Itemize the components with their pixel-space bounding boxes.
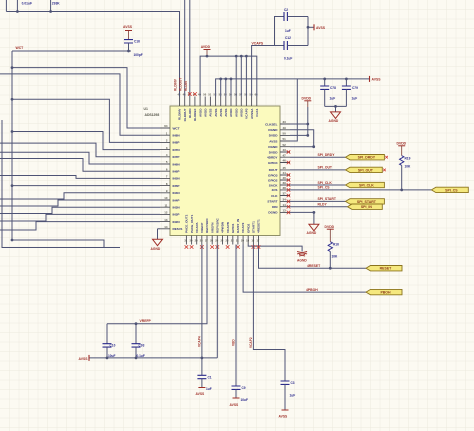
- R19 value 10K: [405, 165, 412, 169]
- wire input channel 12: [0, 214, 160, 221]
- svg-text:1uF: 1uF: [352, 97, 358, 101]
- svg-text:C16: C16: [134, 40, 140, 44]
- svg-text:4PBOH: 4PBOH: [306, 288, 318, 292]
- svg-text:PACE_OUT2: PACE_OUT2: [185, 214, 189, 233]
- capacitor C78: [320, 79, 329, 107]
- svg-text:C78: C78: [330, 86, 336, 90]
- node C93 tap junction: [135, 322, 138, 325]
- resistor value 293K: [52, 1, 61, 5]
- wire VREFP: [107, 245, 207, 324]
- junctions on V2: [11, 66, 14, 241]
- svg-text:52: 52: [283, 143, 287, 147]
- svg-text:WCT: WCT: [16, 46, 25, 50]
- C1 designator: [208, 376, 212, 380]
- wire input channel 10: [0, 200, 160, 206]
- port SPI_CS: [431, 187, 468, 192]
- svg-text:PBOH: PBOH: [380, 291, 391, 295]
- node SPI_CS pullup junction: [400, 189, 403, 192]
- R16 value 10K: [332, 255, 339, 259]
- wire input channel 1: [0, 74, 160, 135]
- svg-text:REFVSRC: REFVSRC: [205, 217, 209, 233]
- wire SPI_CS: [290, 189, 431, 191]
- wire to signal ground: [248, 245, 302, 252]
- svg-text:DVDD: DVDD: [302, 97, 312, 101]
- svg-text:21: 21: [236, 239, 239, 243]
- svg-text:START1: START1: [252, 221, 256, 233]
- svg-text:SPI_CS: SPI_CS: [318, 186, 331, 190]
- svg-text:29: 29: [195, 239, 198, 243]
- port RESET: [366, 266, 402, 271]
- svg-text:IN7N: IN7N: [173, 148, 181, 152]
- svg-text:VCAPA: VCAPA: [195, 222, 199, 233]
- C12 designator: [285, 36, 291, 40]
- svg-text:10uF: 10uF: [108, 354, 115, 358]
- net label VCAP4: [197, 336, 201, 347]
- net label RLDINV: [174, 78, 178, 91]
- svg-text:10: 10: [164, 196, 168, 200]
- svg-text:CLKSEL: CLKSEL: [265, 122, 277, 126]
- svg-text:46: 46: [283, 159, 287, 163]
- net label VREFP: [140, 319, 152, 323]
- wire SPI_IN: [290, 206, 348, 208]
- svg-text:RLDOUT: RLDOUT: [179, 78, 183, 91]
- power AVSS at caps: [308, 24, 326, 30]
- wire RESV1 to ground: [158, 229, 161, 239]
- svg-text:23: 23: [226, 239, 229, 243]
- svg-text:SPI_START: SPI_START: [318, 197, 337, 201]
- port SPI_IN: [348, 204, 383, 209]
- svg-text:VCAP2: VCAP2: [249, 337, 253, 348]
- power DVDD top right: [302, 97, 312, 136]
- wire SPI_DRDY: [290, 156, 346, 158]
- svg-text:33: 33: [283, 120, 287, 124]
- net label SPI_CS: [318, 186, 331, 190]
- svg-text:44: 44: [283, 171, 287, 175]
- svg-text:IN2N: IN2N: [173, 220, 181, 224]
- port SPI_START: [346, 199, 385, 204]
- svg-text:DAISY_IN: DAISY_IN: [236, 218, 240, 233]
- svg-text:38: 38: [283, 186, 287, 190]
- R19 designator: [405, 157, 411, 161]
- C78 designator and value: [330, 86, 337, 101]
- C12 value 0.1uF: [284, 57, 292, 61]
- wire AVSS pin to rail: [290, 79, 297, 141]
- no-ERC marks on RLD pins: [188, 92, 197, 96]
- power AVDD: [201, 45, 211, 56]
- op-amp U1 ADS1298 body: [170, 106, 280, 236]
- wire V2 bottom run: [12, 240, 104, 248]
- wire top-left RC net to pin RLDINV: [6, 0, 179, 97]
- C9 value 10uF: [241, 398, 248, 402]
- U1 right pin names: [265, 122, 278, 214]
- svg-text:64: 64: [164, 124, 168, 128]
- power AVSS rail left end: [79, 355, 89, 361]
- node WCT-C16 junction: [127, 50, 130, 53]
- ground AGND right: [307, 224, 319, 235]
- svg-text:C93: C93: [139, 344, 145, 348]
- wire input channel 9: [0, 193, 160, 199]
- svg-text:SPI_IN: SPI_IN: [361, 205, 373, 209]
- svg-text:DVDD: DVDD: [269, 150, 279, 154]
- svg-text:VCAP4: VCAP4: [197, 336, 201, 347]
- svg-text:14: 14: [283, 203, 287, 207]
- net label VBD: [232, 339, 236, 346]
- wire CLKSEL pin to DVDD: [290, 123, 308, 125]
- net label 4PBOH: [306, 288, 318, 292]
- svg-text:AVSS: AVSS: [209, 109, 213, 117]
- svg-text:RLDINV: RLDINV: [174, 78, 178, 91]
- svg-text:50: 50: [283, 132, 287, 136]
- svg-text:START: START: [267, 200, 277, 204]
- svg-text:CLK: CLK: [271, 194, 278, 198]
- net label VCAPS: [252, 41, 264, 45]
- wire WCT: [12, 50, 131, 52]
- svg-text:AVSS: AVSS: [123, 25, 133, 29]
- capacitor C3: [281, 381, 290, 410]
- svg-text:REFVSRC: REFVSRC: [216, 217, 220, 233]
- power DVDD pullup R16: [325, 225, 335, 242]
- svg-text:AVSS: AVSS: [230, 403, 240, 407]
- resistor R16: [328, 242, 332, 269]
- power AVSS under C1: [196, 388, 206, 397]
- wire DVDD pin row: [290, 134, 308, 136]
- capacitor C16: [124, 40, 133, 51]
- svg-text:DVDD: DVDD: [397, 141, 407, 145]
- svg-text:AVDD: AVDD: [240, 108, 244, 117]
- C79 designator and value: [352, 86, 359, 101]
- wire VCAPS: [252, 46, 275, 97]
- ground AGND star: [297, 252, 307, 263]
- no-ERC marks right pins: [287, 150, 291, 214]
- C93 designator: [139, 344, 145, 348]
- svg-text:43: 43: [283, 148, 287, 152]
- wire bus V1 left edge: [2, 120, 120, 248]
- C16 value 100pF: [134, 53, 143, 57]
- U1 top pin names: [178, 108, 259, 122]
- svg-text:VCAPS: VCAPS: [252, 41, 264, 45]
- svg-text:4CS: 4CS: [271, 188, 277, 192]
- svg-text:SPI_DRDY: SPI_DRDY: [358, 156, 376, 160]
- svg-text:C9: C9: [242, 386, 246, 390]
- node caps common junction: [334, 105, 337, 108]
- svg-text:IN7P: IN7P: [173, 155, 180, 159]
- svg-text:AVSS: AVSS: [219, 109, 223, 117]
- net label RLDY: [318, 203, 328, 207]
- svg-text:17: 17: [256, 239, 259, 243]
- C3 value 1uF: [290, 394, 296, 398]
- svg-text:AGND: AGND: [151, 247, 161, 251]
- wire RLDIN: [189, 0, 191, 97]
- capacitor C79: [342, 79, 351, 107]
- svg-text:SPI_START: SPI_START: [357, 200, 377, 204]
- svg-text:1uF: 1uF: [285, 29, 291, 33]
- svg-text:SACK: SACK: [269, 183, 279, 187]
- svg-text:AVSS: AVSS: [316, 26, 326, 30]
- capacitor C9: [232, 386, 241, 398]
- wire input channel 3: [12, 132, 160, 150]
- svg-text:AVDD: AVDD: [201, 45, 211, 49]
- svg-text:PACE_OUT1: PACE_OUT1: [190, 214, 194, 233]
- svg-text:1uF: 1uF: [330, 97, 336, 101]
- svg-text:AVDD: AVDD: [203, 108, 207, 117]
- wire SPI_CLK: [290, 184, 346, 186]
- svg-text:1uF: 1uF: [206, 387, 212, 391]
- U1 right pin numbers: [283, 120, 287, 212]
- capacitor C2: [284, 12, 308, 21]
- C1 value 1uF: [206, 387, 212, 391]
- svg-text:100pF: 100pF: [134, 53, 143, 57]
- no-ERC mark at SPI_DRDY port: [385, 156, 388, 159]
- svg-text:10K: 10K: [332, 255, 339, 259]
- wire 4PBOH: [243, 245, 366, 293]
- svg-text:VREFP: VREFP: [200, 223, 204, 233]
- svg-text:22: 22: [231, 239, 234, 243]
- svg-text:AVDD: AVDD: [198, 108, 202, 117]
- svg-text:45: 45: [283, 166, 287, 170]
- svg-text:0.1uF: 0.1uF: [284, 57, 292, 61]
- svg-text:GPID2: GPID2: [246, 223, 250, 233]
- U1 left pin names: [173, 126, 183, 231]
- C10 designator: [110, 344, 116, 348]
- svg-text:WCT: WCT: [173, 126, 180, 130]
- svg-text:0.1uF: 0.1uF: [137, 354, 145, 358]
- wire SPI_OUT: [290, 169, 346, 171]
- svg-text:VREFP: VREFP: [140, 319, 152, 323]
- wire input channel 4: [0, 143, 160, 157]
- R16 designator: [333, 243, 339, 247]
- capacitor C1: [197, 375, 206, 387]
- svg-text:GPIO3: GPIO3: [268, 173, 278, 177]
- svg-text:GPIO4: GPIO4: [268, 161, 278, 165]
- junctions AVDD rail: [206, 55, 248, 58]
- wire input channel 6: [0, 159, 160, 172]
- svg-text:C1: C1: [208, 376, 212, 380]
- svg-text:RLDIN: RLDIN: [184, 81, 188, 91]
- svg-text:13: 13: [283, 209, 287, 213]
- junctions AVSS rail: [219, 78, 347, 81]
- svg-text:DVDD: DVDD: [269, 134, 279, 138]
- svg-text:4DRDY: 4DRDY: [267, 156, 278, 160]
- svg-text:ADS1298: ADS1298: [145, 113, 160, 117]
- net label RLDIN: [184, 81, 188, 91]
- net label WCT: [16, 46, 25, 50]
- svg-text:AVSS: AVSS: [269, 139, 277, 143]
- U1 bottom pin names: [185, 214, 261, 233]
- svg-text:20: 20: [241, 239, 244, 243]
- wire input channel 13: [0, 222, 160, 230]
- svg-text:4RESET: 4RESET: [307, 264, 321, 268]
- svg-text:10uF: 10uF: [241, 398, 248, 402]
- C93 value 0.1uF: [137, 354, 145, 358]
- svg-text:30: 30: [190, 239, 193, 243]
- C9 designator: [242, 386, 246, 390]
- U1 bottom pin numbers: [184, 239, 260, 243]
- svg-text:IN5P: IN5P: [173, 184, 180, 188]
- C3 designator: [291, 381, 295, 385]
- power AVSS under C3: [279, 410, 289, 419]
- wire SPI_START: [290, 200, 346, 202]
- svg-text:DVDD: DVDD: [325, 225, 335, 229]
- svg-text:IN4P: IN4P: [173, 198, 180, 202]
- capacitor C93: [132, 324, 141, 358]
- port SPI_CLK: [346, 182, 385, 187]
- svg-text:SPI_OUT: SPI_OUT: [318, 166, 333, 170]
- svg-text:47: 47: [283, 153, 287, 157]
- wire input channel 11: [0, 207, 160, 213]
- svg-text:37: 37: [283, 192, 287, 196]
- svg-text:RLDREF: RLDREF: [193, 108, 197, 121]
- svg-text:SPI_CLK: SPI_CLK: [359, 184, 374, 188]
- svg-text:RLDINV: RLDINV: [178, 108, 182, 120]
- node RESET pullup junction: [329, 267, 332, 270]
- net label SPI_CLK: [318, 181, 333, 185]
- svg-text:19: 19: [246, 239, 249, 243]
- svg-text:10K: 10K: [405, 165, 412, 169]
- capacitor C10: [103, 324, 112, 358]
- svg-text:34: 34: [283, 198, 287, 202]
- wire C2 C12 right leg: [307, 17, 309, 46]
- svg-text:IN3P: IN3P: [173, 213, 180, 217]
- svg-text:IN8P: IN8P: [173, 141, 180, 145]
- svg-text:IN3N: IN3N: [173, 206, 181, 210]
- wire 4RESET: [259, 245, 367, 269]
- net label RLDOUT: [179, 78, 183, 91]
- svg-text:R16: R16: [333, 243, 339, 247]
- svg-text:40: 40: [283, 176, 287, 180]
- capacitor C12: [284, 41, 308, 50]
- svg-text:AVSS: AVSS: [372, 77, 382, 81]
- svg-text:RLDIN: RLDIN: [188, 108, 192, 118]
- svg-text:VCAP3: VCAP3: [245, 108, 249, 119]
- svg-text:49: 49: [283, 126, 287, 130]
- wire caps common: [325, 106, 347, 112]
- net label SPI_START: [318, 197, 337, 201]
- svg-text:C3: C3: [291, 381, 295, 385]
- node right leg junction: [307, 26, 310, 29]
- svg-text:1uF: 1uF: [290, 394, 296, 398]
- svg-text:AGND: AGND: [329, 119, 339, 123]
- svg-text:11: 11: [164, 203, 167, 207]
- power AVSS top-left: [123, 25, 133, 40]
- wire input channel 7: [0, 176, 160, 179]
- wire VCAP2: [253, 245, 285, 382]
- U1 left pin numbers: [164, 124, 168, 229]
- svg-text:293K: 293K: [52, 1, 61, 5]
- no-ERC marks bottom pins: [185, 245, 261, 249]
- wire input channel 8: [12, 185, 160, 187]
- svg-text:VBD: VBD: [232, 339, 236, 346]
- resistor R19: [400, 156, 404, 190]
- svg-text:IN8N: IN8N: [173, 134, 181, 138]
- svg-text:IN4N: IN4N: [173, 191, 181, 195]
- power AVSS right end: [370, 76, 382, 82]
- port SPI_DRDY: [346, 155, 385, 160]
- wire input channel 0: [12, 68, 160, 128]
- node junction top-left R: [49, 10, 52, 13]
- svg-text:R19: R19: [405, 157, 411, 161]
- wire DGND chain right: [290, 130, 314, 147]
- svg-text:IN6N: IN6N: [173, 162, 181, 166]
- ground AGND under C78 C79: [329, 112, 341, 123]
- svg-text:0.01uF: 0.01uF: [22, 1, 32, 5]
- wire AVSS bottom rail: [89, 245, 217, 358]
- svg-text:28: 28: [200, 239, 203, 243]
- svg-text:AVSSA: AVSSA: [250, 108, 254, 119]
- power DVDD pullup R19: [397, 141, 407, 155]
- svg-text:RESET: RESET: [380, 267, 393, 271]
- svg-text:26: 26: [210, 239, 213, 243]
- svg-text:AVSS: AVSS: [79, 357, 89, 361]
- svg-text:C12: C12: [285, 36, 291, 40]
- wire RLDOUT: [184, 0, 186, 97]
- svg-text:C2: C2: [284, 8, 288, 12]
- svg-text:U1: U1: [144, 107, 148, 111]
- svg-text:12: 12: [164, 211, 168, 215]
- ground AGND left: [151, 239, 163, 251]
- svg-text:SPI_CS: SPI_CS: [445, 188, 458, 192]
- wire C2 C12 left leg: [275, 17, 285, 46]
- svg-text:SPI_DRDY: SPI_DRDY: [318, 153, 336, 157]
- svg-text:SPI_CLK: SPI_CLK: [318, 181, 333, 185]
- port SPI_OUT: [346, 167, 383, 172]
- wire DGND to AGND: [290, 212, 314, 224]
- U1 designator: [144, 107, 160, 117]
- svg-text:13: 13: [164, 218, 168, 222]
- svg-text:VCAP2: VCAP2: [241, 222, 245, 233]
- svg-text:DGND: DGND: [268, 211, 278, 215]
- C10 value 10uF: [108, 354, 115, 358]
- svg-text:DIN: DIN: [272, 205, 278, 209]
- svg-text:4PWDN: 4PWDN: [221, 221, 225, 233]
- svg-text:AVSS: AVSS: [279, 415, 289, 419]
- svg-text:RLDY: RLDY: [318, 203, 328, 207]
- svg-text:IN6P: IN6P: [173, 170, 180, 174]
- svg-text:VREFN: VREFN: [210, 222, 214, 233]
- svg-text:DGND: DGND: [268, 128, 278, 132]
- U1 top pin numbers: [177, 93, 258, 97]
- net label SPI_OUT: [318, 166, 333, 170]
- svg-text:RLDOUT: RLDOUT: [183, 108, 187, 121]
- C16 designator: [134, 40, 140, 44]
- svg-text:AVDD: AVDD: [234, 108, 238, 117]
- svg-text:GPIO1: GPIO1: [231, 223, 235, 233]
- node DGND chain junction: [312, 145, 315, 148]
- svg-text:AVDD: AVDD: [229, 108, 233, 117]
- net label SPI_DRDY: [318, 153, 336, 157]
- C2 value 1uF: [285, 29, 291, 33]
- svg-text:25: 25: [215, 239, 218, 243]
- svg-text:AVSS: AVSS: [224, 109, 228, 117]
- svg-text:SPI_OUT: SPI_OUT: [358, 168, 374, 172]
- svg-text:18: 18: [251, 239, 254, 243]
- svg-text:AVSS: AVSS: [214, 109, 218, 117]
- svg-text:14: 14: [164, 225, 168, 229]
- svg-text:AGND: AGND: [307, 231, 317, 235]
- port PBOH: [366, 289, 402, 294]
- svg-text:C79: C79: [352, 86, 358, 90]
- node junction top-left C: [16, 10, 19, 13]
- wire bus V2 left: [11, 51, 13, 240]
- wire AVDD rail: [200, 56, 257, 96]
- wire input channel 5: [0, 152, 160, 164]
- node DGND junction: [313, 211, 316, 214]
- wire AVSS rail: [216, 79, 370, 97]
- svg-text:CLK1: CLK1: [255, 108, 259, 116]
- svg-text:27: 27: [205, 239, 208, 243]
- power AVSS under C9: [230, 398, 240, 407]
- capacitor value 0.01uF: [22, 1, 32, 5]
- junctions AVSS bottom rail: [106, 357, 204, 360]
